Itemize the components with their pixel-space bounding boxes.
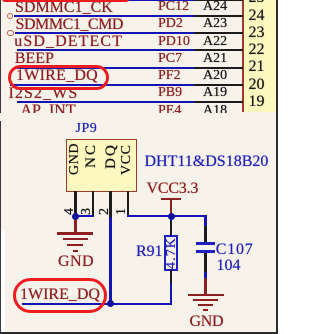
annotation oval top (1WIRE_DQ row) [8,65,109,90]
pin number 1 (rotated) [115,208,129,215]
capacitor C107 bottom lead (pin) [204,253,206,273]
junction node 1WIRE_DQ [107,300,114,307]
pin number 21 [249,59,265,75]
ground symbol GND1 bar4 [73,250,78,252]
wire net BEEP [15,67,194,69]
pin name row0 (cut) [158,0,189,1]
window border right [276,0,278,334]
port row0 (cut) [203,0,227,1]
capacitor C107 plate top [196,242,215,245]
net label AP_INT (no wire visible) [21,103,76,119]
resistor R91 body [164,235,178,271]
connector JP9 designator [76,122,98,136]
resistor R91 bottom lead [170,270,172,284]
capacitor C107 value 104 [217,258,241,274]
resistor R91 value 4.7K (rotated) [165,236,179,268]
JP9 pin name NC (rotated) [84,142,99,167]
net label 1WIRE_DQ (bottom) [20,287,100,303]
pin name PD10 [158,35,190,49]
net label uSD_DETECT [14,34,123,50]
net label SDMMC1_CK [15,0,113,16]
pin 24 wire [194,15,243,17]
power port VCC3.3 stem [170,199,172,215]
port A18 [203,104,227,118]
wire DQ vertical (pin2 to bottom net) [109,217,111,304]
pin name PC7 [158,52,182,66]
resistor R91 top lead [170,221,172,235]
capacitor C107 plate bottom [196,250,215,253]
wire net row0 (cut at top) [13,0,194,1]
port A21 [203,52,227,66]
wire pin1 to VCC node and on to C107 [127,215,207,217]
ground symbol GND2 bar2 [193,299,218,301]
pin name PF2 [158,69,181,83]
window border left line [0,0,1,334]
wire net uSD_DETECT [17,49,194,51]
pin number 3 (rotated) [80,208,94,215]
pin number 22 [249,42,265,58]
wire R91 bottom corner [170,283,172,306]
JP9 pin 1 [127,191,129,216]
pin 23 wire [194,32,243,34]
ground label GND1 [58,254,94,270]
wire net 1WIRE_DQ (row) [10,84,194,86]
port A19 [203,86,227,100]
pin 22 wire [194,49,243,51]
capacitor C107 top lead (pin) [204,226,206,242]
wire VCC node down to R91 [170,216,172,222]
pin name PD2 [158,17,183,31]
ground symbol GND2 bar4 [203,309,208,311]
no-connect marker row1 [7,13,13,19]
annotation oval bottom (1WIRE_DQ) [13,278,107,313]
ground symbol GND1 bar1 [57,232,93,234]
pin number 23 [249,25,265,41]
JP9 pin 4 [74,191,76,214]
JP9 pin name GND (rotated) [68,142,82,174]
connector body (right edge, cut) [244,0,276,112]
pin 20 wire [194,84,243,86]
pin 21 wire [194,67,243,69]
ground symbol GND2 bar1 [188,294,224,296]
JP9 pin 2 [109,191,111,218]
port A22 [203,35,227,49]
port A20 [203,69,227,83]
no-connect marker row2 [7,30,14,37]
label DHT11&DS18B20 [145,154,269,170]
wire net SDMMC1_CMD [15,32,194,34]
ground label GND2 [190,314,224,330]
pin name PC12 [158,0,189,14]
capacitor C107 designator [216,242,254,258]
power port VCC3.3 label [147,181,199,197]
annotation oval row0 (cut at top edge) [2,0,129,2]
pin number 25 [249,0,265,6]
capacitor C107 top lead (wire) [204,216,206,227]
wire net 1WIRE_DQ (bottom) [22,303,173,306]
JP9 pin name VCC (rotated) [120,144,134,175]
junction node pin4/GND [72,213,79,220]
net label BEEP [15,51,54,67]
JP9 pin 3 [92,191,94,216]
pin number 2 (rotated) [98,208,112,215]
pin name PE4 [158,104,181,118]
net label SDMMC1_CMD [16,17,124,33]
ground symbol GND1 stem [74,219,76,234]
power port VCC3.3 bar [161,198,181,200]
connector body left border [242,0,244,112]
pin 25 wire (cut) [194,0,243,1]
window border left white strip [1,230,5,332]
ground symbol GND2 stem [204,278,206,295]
window border bottom [0,332,278,334]
port A23 [203,17,227,31]
wire net I2S2_WS [17,101,194,103]
pin number 19 [249,94,265,110]
pin number 4 (rotated) [63,208,77,215]
connector JP9 body [66,139,137,192]
net label row0 (cut) [15,0,127,1]
net label 1WIRE_DQ (row) [16,68,98,84]
pin 19 wire [194,101,243,103]
pin number 20 [249,77,265,93]
wire pin3 to pin4 jog [74,215,94,217]
JP9 pin name DQ (rotated) [104,142,119,168]
junction node VCC [168,213,175,220]
port A24 [203,0,227,14]
net label I2S2_WS [9,86,79,102]
crop mask strip below table [0,113,276,121]
ground symbol GND1 bar3 [67,244,83,246]
pin name PB9 [158,86,182,100]
wire net SDMMC1_CK [14,15,194,17]
resistor R91 designator [136,244,163,260]
ground symbol GND2 bar3 [198,304,214,306]
capacitor C107 bottom lead (wire) [204,272,206,279]
pin number 24 [249,8,265,24]
ground symbol GND1 bar2 [63,238,88,240]
